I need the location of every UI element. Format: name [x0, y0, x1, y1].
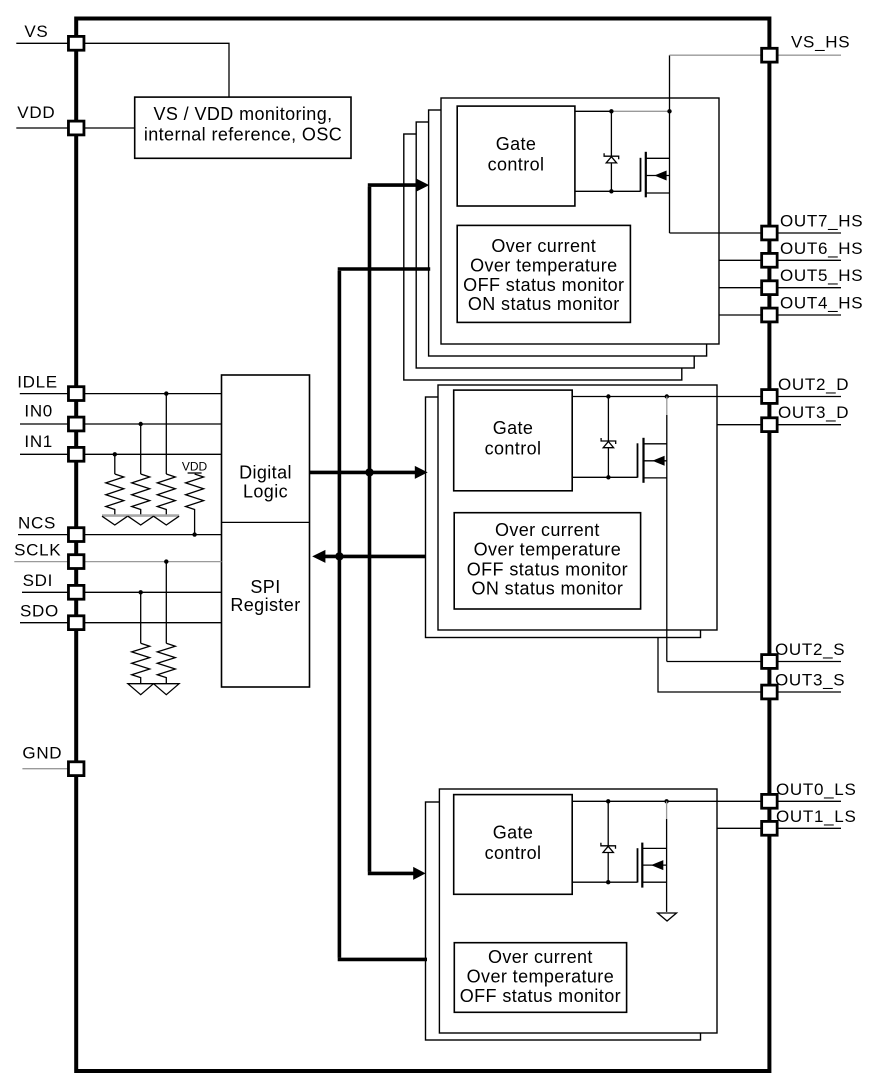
wire LS gate [572, 880, 637, 884]
transistor MID MOSFET [638, 438, 667, 483]
pin OUT0_LS [762, 780, 857, 808]
svg-text:OUT1_LS: OUT1_LS [776, 807, 857, 826]
ground SCLK [154, 684, 180, 695]
block Over current monitor HS [457, 225, 630, 322]
ground LS MOSFET source [658, 913, 677, 921]
svg-text:OFF status monitor: OFF status monitor [463, 275, 624, 295]
block Gate control MID [454, 390, 573, 491]
transistor LS MOSFET [638, 843, 667, 888]
wire MID MOSFET vertical to OUT2_S [666, 397, 668, 662]
svg-text:IN0: IN0 [24, 402, 53, 421]
pin VDD [16, 103, 84, 135]
svg-text:GND: GND [22, 744, 62, 763]
wire HS drain rail [575, 109, 672, 113]
resistor VDD pullup for NCS [182, 460, 208, 537]
MID channel front rectangle [438, 385, 717, 630]
svg-text:OUT3_S: OUT3_S [775, 671, 845, 690]
wire VDD to monitor box [84, 127, 135, 129]
ground SDI [128, 684, 154, 695]
svg-text:Digital: Digital [239, 463, 292, 483]
wire VS_HS rail down to HS MOSFET and OUT7 [669, 55, 671, 233]
pin SDO [20, 602, 84, 630]
LS channel stack back rectangle [426, 802, 701, 1040]
svg-text:OUT0_LS: OUT0_LS [776, 780, 857, 799]
block Digital Logic / SPI Register [222, 375, 310, 687]
pin SCLK [14, 541, 84, 569]
pin OUT4_HS [762, 294, 864, 322]
wire IN0 to Digital Logic [84, 423, 222, 425]
wire Digital Logic output arrow to mid block [310, 466, 428, 479]
pin VS [16, 22, 84, 50]
pin OUT3_D [762, 403, 850, 431]
resistor SCLK pulldown [157, 643, 175, 683]
ground IDLE [154, 516, 180, 525]
svg-text:VS: VS [24, 22, 48, 41]
resistor SDI pulldown [132, 643, 150, 683]
diode MID body zener [601, 397, 616, 478]
wire OUT5_HS [719, 287, 762, 289]
svg-text:ON status monitor: ON status monitor [471, 579, 623, 599]
pin OUT7_HS [762, 212, 864, 240]
svg-text:Gate: Gate [496, 134, 537, 154]
HS channel stack layer 4 [404, 134, 682, 380]
diode HS body zener [604, 111, 619, 191]
wire OUT7_HS [670, 232, 763, 234]
svg-text:IDLE: IDLE [17, 373, 58, 392]
node IN0 pulldown junction [139, 422, 143, 474]
node IN1 pulldown junction [113, 452, 117, 474]
pin OUT1_LS [762, 807, 857, 835]
wire IN1 to Digital Logic [84, 453, 222, 455]
HS channel stack layer 2 [429, 110, 707, 356]
svg-text:VDD: VDD [182, 460, 208, 474]
block Gate control LS [454, 795, 573, 895]
svg-text:SDO: SDO [20, 602, 59, 621]
wire gate-drive arrow to HS block [368, 179, 429, 192]
wire OUT3_D [717, 424, 762, 426]
wire status feedback arrow to SPI Register [312, 550, 425, 563]
wire LS MOSFET vertical to ground [666, 801, 668, 912]
wire OUT3_S [658, 638, 762, 693]
svg-text:ON status monitor: ON status monitor [468, 294, 620, 314]
transistor HS MOSFET [641, 152, 670, 198]
wire NCS to Digital Logic [84, 534, 222, 536]
ground IN1 [102, 516, 128, 525]
node IDLE pulldown junction [164, 391, 168, 474]
wire SCLK to SPI Register [84, 561, 222, 563]
wire SDI to SPI Register [84, 591, 222, 593]
svg-text:OUT6_HS: OUT6_HS [780, 239, 863, 258]
svg-text:NCS: NCS [18, 514, 56, 533]
svg-text:Over current: Over current [488, 947, 593, 967]
svg-text:VDD: VDD [17, 103, 55, 122]
pin VS_HS [762, 33, 851, 63]
pin GND [22, 744, 84, 776]
svg-text:OUT3_D: OUT3_D [778, 403, 849, 422]
pin IDLE [17, 373, 84, 401]
wire OUT6_HS [719, 259, 762, 261]
svg-text:Over temperature: Over temperature [470, 256, 617, 276]
svg-text:IN1: IN1 [24, 432, 53, 451]
wire gate-drive arrow to LS block [368, 867, 426, 880]
svg-text:SDI: SDI [23, 571, 53, 590]
svg-text:VS / VDD monitoring,: VS / VDD monitoring, [153, 104, 332, 124]
pin OUT6_HS [762, 239, 864, 267]
svg-text:Gate: Gate [493, 418, 534, 438]
svg-text:Register: Register [230, 595, 300, 615]
wire MID gate [572, 475, 637, 479]
svg-text:Over temperature: Over temperature [467, 967, 614, 987]
block Over current monitor MID [454, 513, 640, 609]
pin OUT2_D [762, 375, 850, 403]
wire OUT4_HS [719, 314, 762, 316]
ground bar under input pulldowns [102, 514, 179, 517]
wire status bus to LS block [338, 958, 427, 962]
block Over current monitor LS [454, 943, 626, 1013]
resistor IN0 pulldown [132, 474, 150, 515]
svg-text:control: control [485, 843, 542, 863]
wire SDO to SPI Register [84, 622, 222, 624]
block Gate control HS [457, 106, 575, 206]
pin OUT3_S [762, 671, 846, 699]
pin NCS [18, 514, 84, 542]
chip outline [76, 19, 769, 1072]
LS channel front rectangle [439, 789, 717, 1033]
pin SDI [22, 571, 84, 599]
svg-text:VS_HS: VS_HS [791, 33, 850, 52]
svg-text:OUT5_HS: OUT5_HS [780, 266, 863, 285]
wire VS to monitor box [84, 43, 229, 97]
svg-text:Logic: Logic [243, 482, 288, 502]
wire status bus to HS block [338, 267, 431, 271]
resistor IDLE pulldown [157, 474, 175, 515]
bus status vertical [338, 271, 342, 958]
svg-text:Gate: Gate [493, 822, 534, 842]
svg-text:control: control [488, 155, 545, 175]
svg-text:Over current: Over current [495, 520, 600, 540]
node SDI pulldown junction [139, 590, 143, 643]
bus gate-drive vertical [368, 187, 372, 872]
svg-text:OUT7_HS: OUT7_HS [780, 212, 863, 231]
MID channel stack back rectangle [426, 397, 701, 638]
HS channel front rectangle [441, 98, 719, 344]
wire VS_HS stub [670, 54, 763, 56]
svg-text:OUT4_HS: OUT4_HS [780, 294, 863, 313]
svg-text:OFF status monitor: OFF status monitor [460, 986, 621, 1006]
pin IN0 [20, 402, 84, 431]
svg-text:OUT2_S: OUT2_S [775, 640, 845, 659]
node SCLK pulldown junction [164, 559, 168, 643]
pin OUT2_S [762, 640, 846, 668]
svg-text:internal reference, OSC: internal reference, OSC [144, 124, 342, 144]
ground IN0 [128, 516, 154, 525]
resistor IN1 pulldown [106, 474, 124, 515]
pin IN1 [20, 432, 84, 461]
svg-text:OFF status monitor: OFF status monitor [467, 559, 628, 579]
wire OUT2_S [667, 661, 762, 663]
wire OUT0_LS rail [572, 799, 762, 803]
wire OUT2_D rail [572, 394, 762, 398]
wire IDLE to Digital Logic [84, 393, 222, 395]
wire HS gate [575, 189, 641, 193]
svg-text:Over temperature: Over temperature [474, 540, 621, 560]
pin OUT5_HS [762, 266, 864, 294]
block VS/VDD monitoring [135, 97, 351, 158]
diode LS body zener [601, 801, 616, 882]
svg-text:SCLK: SCLK [14, 541, 61, 560]
HS channel stack layer 3 [416, 122, 694, 368]
svg-text:control: control [485, 439, 542, 459]
svg-text:Over current: Over current [491, 236, 596, 256]
svg-text:OUT2_D: OUT2_D [778, 375, 849, 394]
wire OUT1_LS [717, 827, 762, 829]
